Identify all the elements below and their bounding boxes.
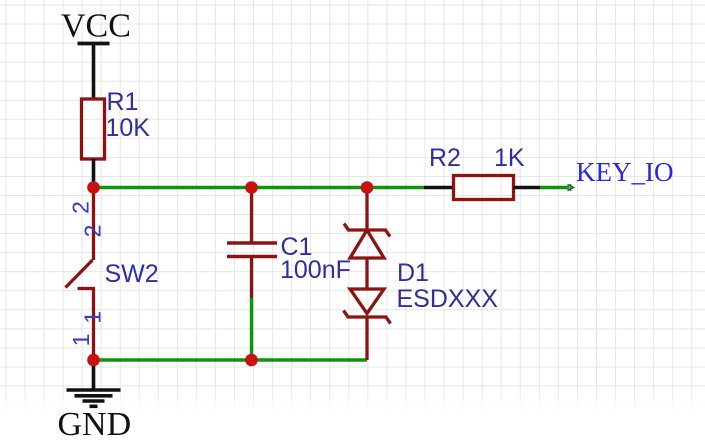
capacitor C1 plates bbox=[227, 243, 277, 257]
TVS diode D1 top pin bbox=[365, 188, 368, 231]
svg-text:VCC: VCC bbox=[61, 8, 131, 45]
junction node dot (SW2/GND) bbox=[87, 354, 100, 367]
svg-text:R2: R2 bbox=[429, 144, 461, 172]
svg-text:1: 1 bbox=[80, 311, 106, 324]
wire node to GND bbox=[92, 360, 96, 389]
junction node dot (D1 top) bbox=[361, 181, 374, 194]
svg-text:2: 2 bbox=[68, 201, 94, 214]
svg-text:1: 1 bbox=[68, 334, 94, 347]
wire to KEY_IO port (green) bbox=[540, 186, 569, 189]
switch SW2 blade bbox=[66, 260, 93, 288]
D1 upper diode triangle bbox=[350, 230, 384, 258]
D1 upper cathode bar bbox=[344, 224, 390, 237]
capacitor C1 top pin bbox=[250, 188, 253, 242]
ground symbol bbox=[67, 390, 121, 406]
switch SW2 pin 2 wire bbox=[92, 188, 95, 261]
svg-text:1K: 1K bbox=[494, 144, 525, 172]
power flag VCC bbox=[61, 8, 131, 45]
svg-text:ESDXXX: ESDXXX bbox=[397, 285, 499, 313]
wire R1 to node A bbox=[92, 159, 96, 188]
svg-text:10K: 10K bbox=[106, 114, 151, 142]
wire C1 to bottom net (green) bbox=[250, 298, 253, 360]
switch SW2 pin 1 wire bbox=[92, 289, 95, 361]
wire R2 left pin (black) bbox=[424, 186, 454, 190]
capacitor C1 bottom pin bbox=[250, 258, 253, 298]
wire R2 right pin (black) bbox=[514, 186, 541, 190]
svg-text:2: 2 bbox=[80, 225, 106, 238]
svg-text:R1: R1 bbox=[107, 88, 139, 116]
D1 lower diode triangle bbox=[350, 289, 384, 314]
junction node dot (R1/SW2/net) bbox=[87, 181, 100, 194]
resistor R1 bbox=[82, 99, 105, 159]
svg-text:KEY_IO: KEY_IO bbox=[576, 157, 673, 187]
D1 bottom pin bbox=[365, 317, 368, 360]
svg-text:100nF: 100nF bbox=[280, 256, 351, 284]
wire main horizontal net (green) bbox=[94, 186, 425, 189]
svg-text:D1: D1 bbox=[397, 259, 429, 287]
resistor R2 bbox=[454, 176, 514, 200]
wire bottom net (green) bbox=[94, 358, 368, 361]
D1 middle link bbox=[365, 258, 368, 289]
junction node dot (C1 bottom) bbox=[245, 354, 258, 367]
junction node dot (C1 top) bbox=[245, 181, 258, 194]
svg-text:GND: GND bbox=[58, 406, 132, 443]
port arrow tick bbox=[568, 184, 574, 191]
switch SW2 fixed contact bbox=[78, 287, 96, 290]
wire VCC to R1 bbox=[92, 45, 96, 100]
svg-text:SW2: SW2 bbox=[105, 260, 159, 288]
D1 lower cathode bar bbox=[344, 311, 391, 324]
